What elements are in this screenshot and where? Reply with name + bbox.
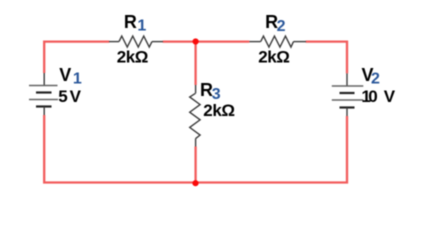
svg-text:V: V xyxy=(70,87,82,106)
gap for V2 xyxy=(344,73,350,116)
gap for R2 xyxy=(249,39,305,44)
svg-text:2kΩ: 2kΩ xyxy=(258,48,289,67)
node bottom junction xyxy=(192,180,198,186)
wire outer loop xyxy=(44,42,347,183)
wire middle vertical lower xyxy=(194,147,196,183)
resistor R1 xyxy=(109,36,163,47)
gap for R1 xyxy=(109,39,162,44)
svg-text:2: 2 xyxy=(371,71,380,88)
svg-text:2kΩ: 2kΩ xyxy=(117,48,148,67)
battery V2 xyxy=(332,73,364,116)
resistor R2 xyxy=(249,36,306,47)
gap for V1 xyxy=(42,73,48,115)
svg-text:0: 0 xyxy=(368,87,377,106)
node top junction xyxy=(193,38,199,44)
svg-text:V: V xyxy=(59,65,71,85)
wire middle vertical upper xyxy=(194,42,196,85)
svg-text:1: 1 xyxy=(137,18,146,35)
svg-text:R: R xyxy=(124,12,137,32)
resistor R3 xyxy=(190,85,200,147)
svg-text:5: 5 xyxy=(58,87,67,106)
svg-text:2kΩ: 2kΩ xyxy=(203,101,234,120)
svg-text:2: 2 xyxy=(277,18,286,35)
battery V1 xyxy=(29,73,58,115)
svg-text:1: 1 xyxy=(73,71,82,88)
svg-text:V: V xyxy=(384,87,396,106)
